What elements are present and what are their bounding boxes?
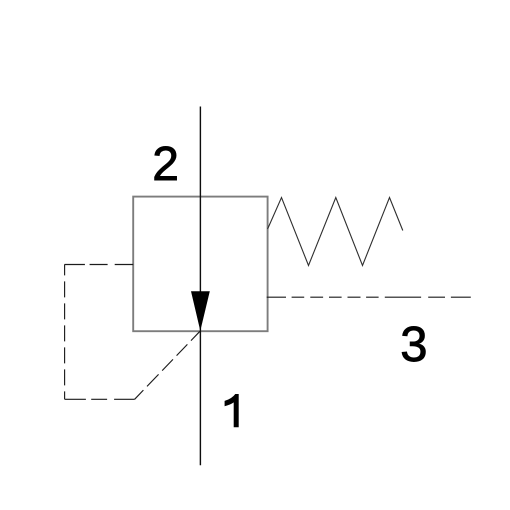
spring xyxy=(268,198,403,266)
wire: pilot line diagonal segment to arrow tip (dashed) xyxy=(135,331,200,399)
valve body square xyxy=(133,197,267,332)
svg-text:2: 2 xyxy=(152,138,179,191)
flow arrow (valve element) xyxy=(191,291,210,331)
node label: port 1 xyxy=(225,394,239,427)
wire: pilot line left segment (dashed) xyxy=(64,264,66,399)
wire: drain line (port 3, dashed) xyxy=(267,296,471,298)
wire: pilot line (dashed) xyxy=(65,264,200,399)
wire: pilot line bottom segment (dashed) xyxy=(65,398,135,400)
wire: pilot line top segment (dashed) xyxy=(65,264,134,266)
wire: main flow line (port 2 to port 1) xyxy=(199,107,201,466)
svg-text:3: 3 xyxy=(400,318,427,372)
